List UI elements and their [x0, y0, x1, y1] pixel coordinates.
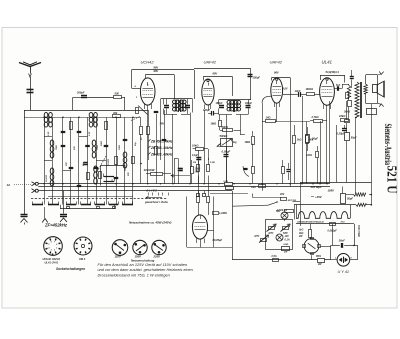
svg-text:NTC: NTC: [269, 232, 274, 235]
speaker loop bottom wire: [366, 103, 378, 105]
capacitor blob lower: [83, 162, 88, 164]
IF2 tuning capacitor right 180pF: [246, 105, 251, 107]
ground bus: [63, 191, 65, 214]
svg-text:30kΩ: 30kΩ: [344, 111, 350, 114]
mains switch diagonal: [233, 205, 269, 206]
mains bottom line: [232, 259, 318, 261]
resistor 0,5M mid: [252, 167, 255, 174]
svg-text:ZB 128..48kHz: ZB 128..48kHz: [150, 153, 173, 157]
IF1 tuning capacitor left: [164, 105, 169, 107]
pin stubs UL41: [323, 105, 325, 110]
bus grid line left block: [24, 117, 140, 119]
tube UM4 envelope: [192, 215, 207, 239]
svg-text:54,9(48)4,4: 54,9(48)4,4: [326, 70, 340, 74]
resistor 1k: [293, 136, 296, 144]
capacitor 10nF coupling: [298, 92, 300, 97]
capacitor antenna series: [27, 89, 34, 91]
svg-text:0,05µF: 0,05µF: [222, 150, 231, 154]
IF1 primary coil: [173, 100, 177, 104]
svg-text:2: 2: [53, 250, 55, 252]
svg-text:19-502: 19-502: [46, 174, 48, 182]
svg-text:10nF: 10nF: [295, 89, 301, 93]
wire PSU top horizontal: [300, 182, 371, 184]
pin stubs UCH42: [144, 104, 146, 109]
resistor 0,5M UM4: [207, 197, 210, 203]
rectifier UY41: [337, 253, 350, 266]
wire: [369, 194, 371, 196]
terminal A1: [32, 182, 36, 186]
IF2 core: [233, 100, 235, 112]
svg-text:0,5A: 0,5A: [272, 255, 277, 258]
svg-text:1,2MΩ: 1,2MΩ: [219, 211, 227, 215]
resistor 17k 2W: [191, 167, 194, 174]
UM4 wires: [198, 196, 200, 198]
speaker loop top wire: [366, 74, 378, 76]
wire heater box down: [332, 224, 334, 246]
wire top of band filter: [73, 97, 81, 99]
wiper arrow out of pot: [217, 143, 221, 146]
svg-text:0,1A: 0,1A: [285, 238, 290, 241]
wire vertical column x133: [132, 117, 134, 204]
svg-text:500: 500: [115, 92, 120, 96]
svg-text:100pF: 100pF: [203, 109, 210, 112]
resistor 1,2M: [213, 212, 219, 215]
resistor 0,1M: [252, 137, 255, 145]
resistor 40k: [113, 115, 121, 118]
resistor 4,5 Ohm: [345, 120, 350, 123]
dial lamp 2: [276, 234, 283, 241]
tube UAF42 second envelope: [271, 78, 283, 103]
svg-text:UAF42|UAF42|UCH42|UL41: UAF42|UAF42|UCH42|UL41: [297, 221, 325, 224]
wire switch link: [60, 208, 115, 210]
resistor 30k box: [348, 101, 352, 107]
antenna ANT: [19, 63, 41, 67]
svg-text:1M: 1M: [193, 162, 196, 164]
svg-text:4: 4: [47, 246, 49, 249]
ground antenna: [21, 214, 28, 216]
resistor second zigzag: [356, 203, 366, 206]
svg-text:ZB 458..54kHz: ZB 458..54kHz: [150, 140, 173, 144]
svg-text:12V/0,1A: 12V/0,1A: [277, 209, 287, 212]
svg-text:76V: 76V: [160, 122, 165, 126]
wire UCH42 top loop: [132, 69, 195, 71]
wire vertical column x71: [70, 117, 72, 204]
coil L6: [92, 140, 96, 146]
wire UAF42 second top: [272, 77, 291, 79]
speaker terminal chevron bottom: [377, 103, 381, 104]
resistor 1M on bus: [259, 185, 266, 188]
svg-text:1kΩ: 1kΩ: [297, 138, 302, 141]
svg-text:0,5M: 0,5M: [210, 162, 215, 164]
svg-text:180pF: 180pF: [216, 102, 223, 105]
coil L1 antenna: [44, 112, 48, 117]
capacitor at UCH42 cathode: [154, 111, 159, 113]
wire vertical column x79: [78, 117, 80, 204]
wire vertical column x87: [87, 117, 89, 204]
coil L2: [49, 112, 53, 117]
electrolytic 50/50uF: [341, 194, 346, 204]
wire vertical column x63: [62, 117, 64, 204]
extra column links: [44, 136, 52, 138]
padder capacitor: [104, 145, 109, 147]
svg-text:150pF: 150pF: [253, 76, 261, 80]
capacitor 200pF: [81, 95, 87, 97]
heater return wire: [354, 224, 356, 246]
svg-text:0,1M: 0,1M: [224, 181, 229, 183]
resistor block left column: [346, 93, 349, 99]
resistor 60k decoupling: [306, 136, 309, 144]
svg-text:50µF: 50µF: [312, 136, 318, 140]
resistor 40/7,5W: [281, 198, 287, 201]
svg-text:50-302: 50-302: [108, 158, 110, 166]
resistor tone zigzag: [347, 86, 350, 99]
pin stubs UAF42 second: [274, 103, 276, 108]
wire arrow mid: [171, 175, 190, 177]
resistor dropper zigzag: [354, 193, 366, 196]
wire: [72, 97, 74, 110]
wire tie line above switch: [48, 196, 133, 198]
svg-text:Für den Anschluß an 125V Gerät: Für den Anschluß an 125V Gerät auf 110V …: [98, 263, 188, 267]
svg-text:26V: 26V: [279, 193, 285, 196]
svg-text:ZB 258..30kHz: ZB 258..30kHz: [150, 146, 173, 150]
coil L3: [89, 112, 93, 117]
sub box outline: [174, 158, 178, 160]
svg-text:1MΩ: 1MΩ: [245, 140, 251, 144]
svg-text:521 U: 521 U: [385, 166, 400, 194]
arrow drawn-position note: [146, 197, 162, 199]
wire vertical column x44: [44, 117, 46, 204]
potentiometer 500k log volume: [221, 139, 233, 147]
svg-text:185V: 185V: [328, 188, 336, 192]
resistor pair on bus: [225, 183, 233, 186]
svg-text:UCH42 UAF42: UCH42 UAF42: [43, 257, 61, 261]
svg-text:UL41 UY41: UL41 UY41: [45, 261, 59, 265]
pot wiper curve: [243, 166, 249, 177]
svg-text:und vor dem dann zusätzl. gesc: und vor dem dann zusätzl. geschalteten H…: [98, 268, 193, 272]
wire detector to bus: [262, 122, 264, 191]
trimmer capacitor T3: [61, 145, 66, 147]
heater chain arcs: [296, 212, 350, 219]
svg-text:3: 3: [51, 250, 52, 252]
svg-text:25p: 25p: [83, 162, 85, 167]
NTC resistor 1: [269, 227, 275, 230]
resistor R2: [70, 122, 73, 130]
svg-text:Sockelschaltungen: Sockelschaltungen: [56, 267, 85, 271]
wire right column: [346, 101, 348, 120]
svg-text:7962: 7962: [97, 144, 99, 150]
svg-text:50µF: 50µF: [347, 196, 353, 200]
IF transformer 1 can: [161, 98, 193, 100]
trimmer arrow over coil: [97, 156, 106, 172]
resistor R3: [105, 122, 108, 130]
svg-text:UAF42: UAF42: [270, 60, 283, 65]
svg-text:26nF: 26nF: [338, 238, 345, 242]
wire vertical column x116: [116, 117, 118, 204]
resistor 1M upper UM4 feed: [197, 165, 200, 172]
svg-text:1: 1: [56, 247, 57, 249]
svg-text:10kΩ/W: 10kΩ/W: [144, 168, 156, 172]
resistor 1M UM4: [197, 197, 200, 203]
IF2 secondary coil: [234, 100, 238, 104]
UM4 enclosure: [186, 197, 188, 248]
svg-text:Netzaufnahme ca. 45W (240V): Netzaufnahme ca. 45W (240V): [129, 220, 171, 224]
svg-text:40k: 40k: [112, 111, 118, 115]
voltage selector 220V: [152, 240, 166, 254]
wire: [121, 97, 125, 99]
svg-text:Siemens-Austria: Siemens-Austria: [382, 124, 392, 166]
wire PSU left: [232, 191, 234, 260]
svg-text:U Y 41: U Y 41: [338, 270, 349, 274]
top cap UAF42 first: [207, 80, 209, 82]
svg-text:UCH42: UCH42: [141, 60, 155, 65]
resistor PRG 2W: [318, 259, 325, 263]
capacitor 5nF tone: [337, 86, 339, 91]
fuse 0,5A: [273, 259, 279, 262]
hum coil box: [367, 109, 377, 115]
svg-text:TrW 7,5kΩ: TrW 7,5kΩ: [357, 225, 360, 237]
wire to UL41 grid: [315, 94, 321, 96]
svg-text:Drosselwiderstand mit 75Ω, 1 W: Drosselwiderstand mit 75Ω, 1 W einfügen: [98, 274, 170, 278]
svg-text:log: log: [233, 141, 237, 144]
wire vertical column x106: [106, 117, 108, 204]
svg-text:5nF: 5nF: [336, 84, 341, 87]
resistor UrO 4k 2W: [309, 230, 312, 238]
svg-text:100Ω: 100Ω: [306, 154, 312, 157]
wire: [301, 94, 306, 96]
IF2 tuning capacitor left 180pF: [219, 105, 224, 107]
svg-text:4kΩ: 4kΩ: [298, 232, 304, 235]
coil L9: [94, 166, 98, 172]
wire vertical column x125: [124, 117, 126, 204]
wire long vertical 3: [355, 118, 357, 194]
wire top cap: [146, 74, 175, 76]
capacitor 150pF coupling: [250, 68, 252, 100]
wire vertical column x52: [52, 117, 54, 204]
heater rail 2: [296, 223, 351, 225]
speaker cone: [377, 81, 384, 97]
electrolytic capacitor block left: [350, 76, 354, 78]
wire UAF42 top: [204, 76, 233, 78]
resistor 1M detector: [219, 121, 222, 127]
svg-text:200pF: 200pF: [76, 91, 85, 95]
socket UCH42/UAF42/UL41/UY41: [44, 237, 63, 256]
dial lamp 12V/0,1A: [281, 212, 288, 219]
switch section box: [101, 166, 126, 186]
resistor R5: [115, 157, 118, 165]
oscillator feedback diagonal: [138, 106, 148, 115]
switch bars small: [104, 176, 115, 178]
capacitor 26nF: [341, 243, 343, 248]
IF2 primary coil: [227, 100, 231, 104]
capacitor blob screen: [178, 168, 183, 170]
svg-text:400 MµF: 400 MµF: [310, 185, 322, 189]
wire to rectifier filament: [331, 245, 340, 247]
junction dots: [43, 117, 44, 118]
trimmer capacitor T2: [77, 131, 82, 133]
freq line arrows: [148, 139, 150, 141]
IF1 wires: [163, 99, 165, 105]
svg-text:UL41: UL41: [322, 60, 333, 65]
resistor URD: [282, 247, 290, 251]
wire screen feeds: [290, 95, 292, 187]
NTC resistor 3: [261, 239, 267, 242]
bus line 1: [38, 183, 330, 185]
resistor UCH42 bias: [140, 127, 143, 135]
switch row small contacts: [67, 207, 70, 209]
resistor 500: [114, 96, 122, 99]
wire osc section verticals: [140, 117, 142, 126]
NTC resistor 2: [283, 227, 289, 230]
ground arrow below switch: [44, 207, 46, 218]
extra resistor lower block: [87, 173, 90, 180]
mains voltage selector drum: [304, 239, 319, 254]
heater feed line: [294, 204, 356, 206]
capacitor 100pF: [211, 111, 213, 116]
svg-text:UAF42: UAF42: [204, 60, 217, 65]
terminal A2: [32, 189, 36, 193]
svg-text:1: 1: [335, 258, 336, 260]
svg-text:UM 4: UM 4: [79, 257, 86, 261]
svg-text:10kΩ: 10kΩ: [192, 144, 198, 148]
pin stubs UAF42 first: [204, 105, 206, 110]
capacitor C osc: [162, 139, 167, 141]
svg-text:5-25: 5-25: [89, 131, 91, 136]
svg-text:Netzumschaltung: Netzumschaltung: [131, 258, 155, 262]
svg-text:2,7kΩ: 2,7kΩ: [311, 115, 319, 119]
capacitor cathode UAF42 second: [286, 169, 290, 171]
trimmer capacitor T1: [61, 131, 66, 133]
svg-text:URD: URD: [284, 244, 289, 246]
svg-text:88V: 88V: [213, 72, 218, 76]
wire vertical column x96: [96, 117, 98, 204]
speaker terminal chevron top: [377, 74, 381, 75]
capacitor C6: [123, 139, 128, 141]
extra small caps lower block: [69, 167, 74, 169]
tube UCH42 internals: [143, 88, 154, 90]
resistor in lower block: [99, 172, 102, 179]
output transformer primary: [355, 82, 359, 118]
output transformer secondary: [364, 84, 368, 94]
svg-text:gezeichnet i. Ruhe: gezeichnet i. Ruhe: [144, 200, 168, 204]
junction dots on buses: [43, 183, 44, 184]
resistor 60k grid: [307, 93, 315, 96]
svg-text:8: 8: [56, 244, 57, 246]
wire long vertical 1: [329, 101, 331, 182]
resistor R osc: [155, 147, 158, 155]
IF transformer 2 top wire: [219, 99, 251, 101]
wire drum to rectifier net: [320, 246, 331, 248]
wire mid horizontal: [210, 193, 248, 195]
dashed mechanical link wave switch: [31, 198, 167, 200]
UM4 output line: [207, 230, 213, 232]
tube UM4 internals: [195, 222, 206, 224]
core RF transformer: [93, 114, 95, 126]
svg-text:1MΩ: 1MΩ: [251, 187, 256, 189]
capacitor on wiper: [243, 168, 247, 170]
wire screen vertical: [204, 110, 206, 184]
tube UL41 internals: [322, 86, 333, 88]
wire UL41 cathode: [326, 118, 328, 184]
wire long vertical 2: [336, 125, 338, 182]
electrolytic 50uF cathode: [306, 135, 310, 143]
PSU network box: [266, 220, 293, 250]
core antenna transformer: [48, 114, 50, 126]
svg-text:7962: 7962: [56, 144, 58, 150]
wire filament right: [344, 245, 357, 247]
capacitor 0,25uF: [342, 128, 347, 130]
svg-text:1A: 1A: [7, 183, 11, 187]
svg-text:4,8V: 4,8V: [282, 87, 288, 90]
top cap UAF42 second: [276, 78, 278, 80]
output transformer core: [360, 82, 362, 118]
IF1 tuning capacitor right: [185, 105, 190, 107]
svg-text:D L 4 E Z: D L 4 E Z: [147, 190, 158, 193]
tube UCH42 envelope: [140, 78, 155, 105]
tube UL41 envelope: [320, 78, 335, 106]
coil L8: [123, 152, 127, 157]
resistor 50k mid: [285, 210, 294, 213]
heater series resistor box: [330, 223, 336, 226]
IF2 wires: [218, 100, 220, 105]
svg-text:50µF: 50µF: [351, 137, 357, 140]
wire UL41 top: [320, 75, 345, 77]
svg-text:20p: 20p: [135, 142, 137, 147]
switch contact letters: [148, 193, 150, 196]
switch contact row: [32, 204, 43, 206]
terminal TA left: [198, 191, 200, 194]
svg-text:180kΩ: 180kΩ: [306, 88, 314, 91]
wire: [293, 201, 301, 203]
svg-text:0,25µF: 0,25µF: [337, 131, 346, 135]
voltage selector 150V: [133, 240, 147, 254]
decoupling capacitor 0,1uF: [196, 157, 201, 159]
socket UM4: [74, 237, 92, 255]
coil L4: [94, 112, 98, 117]
svg-text:3962: 3962: [101, 140, 103, 146]
dashed AGC diagonal: [131, 117, 140, 121]
wire long vertical 4: [371, 104, 373, 205]
tube UAF42 first envelope: [202, 79, 214, 105]
speaker voice coil: [373, 85, 378, 93]
wire anode line: [283, 94, 298, 96]
wire left down to pin: [330, 245, 332, 259]
resistor cathode UAF42 second: [282, 167, 285, 174]
svg-text:500kΩ: 500kΩ: [220, 134, 228, 138]
svg-text:68,05µF: 68,05µF: [213, 238, 223, 242]
resistor 0,5M upper UM4 feed: [207, 165, 210, 172]
wire right down to pin: [357, 245, 359, 259]
svg-text:+45V: +45V: [315, 195, 323, 199]
resistor 100 Ohm: [316, 152, 319, 158]
svg-text:UrO: UrO: [299, 230, 304, 232]
svg-text:14Ω: 14Ω: [266, 116, 271, 120]
bus line 2: [38, 186, 330, 188]
wire link: [253, 197, 281, 199]
electrolytic 50uF right column: [345, 133, 350, 141]
svg-text:1962: 1962: [119, 144, 121, 150]
svg-text:NTC: NTC: [255, 235, 260, 238]
capacitor C4: [85, 145, 90, 147]
voltage selector 110V: [112, 240, 128, 256]
svg-text:0,1µF: 0,1µF: [192, 155, 199, 157]
bus line 3: [38, 190, 232, 192]
wire: [87, 97, 114, 99]
speaker frame vertical: [377, 75, 379, 85]
wire drum down: [311, 255, 313, 260]
IF1 core: [178, 100, 180, 113]
svg-text:1MΩ: 1MΩ: [211, 122, 217, 126]
wire antenna lead: [30, 77, 32, 110]
